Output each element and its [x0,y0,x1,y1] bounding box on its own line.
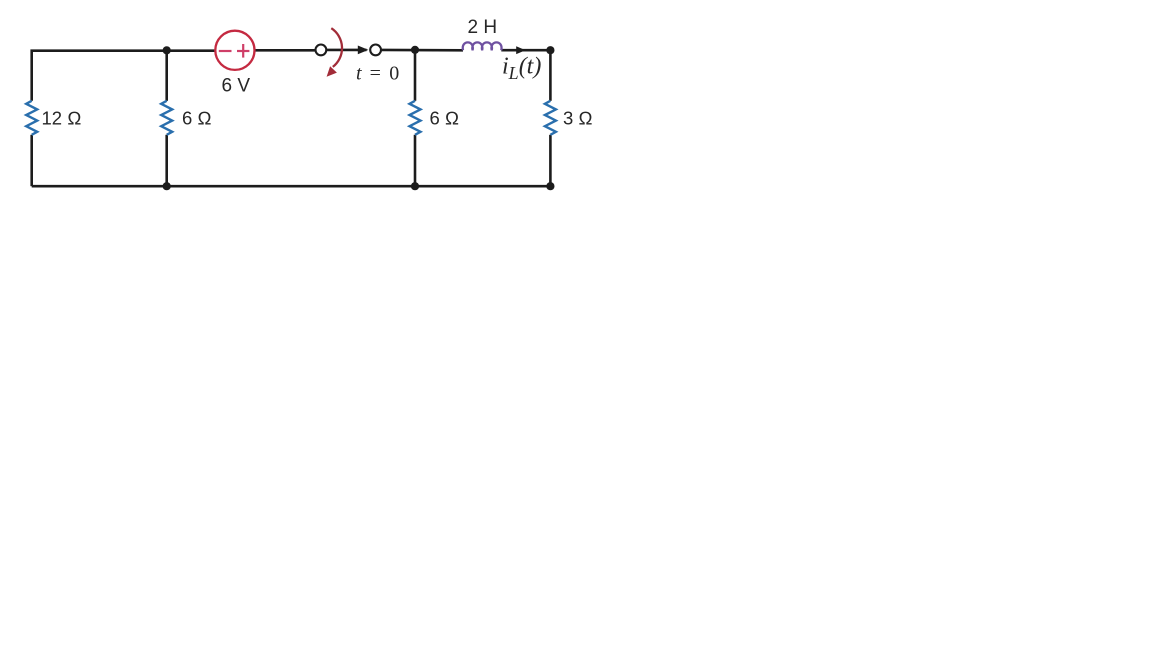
red arc arrowhead [327,66,337,77]
wire: right rail vertical [549,50,552,186]
minus sign inside source [219,50,232,52]
resistor R=3ohm (right) [545,101,556,135]
wire: source to switch left contact [255,49,316,52]
wire: switch arm segment with arrowhead [326,49,366,52]
resistor R=12ohm [26,101,37,135]
current arrow iL(t) on wire [516,46,525,54]
switch contact circle (left) [316,45,327,56]
svg-text:6 V: 6 V [222,76,251,97]
wire: branch 2 vertical [165,51,168,187]
node dot top branch3 [411,46,419,54]
plus sign inside source [237,44,249,58]
switch motion red arc [331,28,342,67]
wire: left rail lower [30,135,33,186]
resistor R=6ohm (branch 3) [410,101,421,135]
svg-text:iL(t): iL(t) [502,54,541,84]
inductor L=2H coil [463,42,502,50]
svg-text:t=0: t=0 [356,63,399,85]
svg-text:3 Ω: 3 Ω [563,107,593,128]
svg-text:12 Ω: 12 Ω [42,107,82,128]
svg-text:6 Ω: 6 Ω [430,107,460,128]
svg-text:2 H: 2 H [468,17,498,38]
node dot bottom branch2 [163,182,171,190]
svg-text:6 Ω: 6 Ω [182,107,212,128]
switch arm arrowhead [358,46,369,55]
wire: switch right contact to node, through to right rail [381,49,463,52]
wire: branch 3 vertical [414,50,417,186]
wire: top rail left segment (corner to source) [32,51,216,101]
node dot bottom branch3 [411,182,419,190]
node dot top branch2 [163,46,171,54]
wire: inductor to top-right node [501,49,550,52]
node dot top right [546,46,554,54]
switch contact circle (right) [370,45,381,56]
wire: bottom rail [32,185,551,188]
node dot bottom right [546,182,554,190]
voltage source V1 6V circle [215,31,254,70]
resistor R=6ohm (branch 2) [161,101,172,135]
